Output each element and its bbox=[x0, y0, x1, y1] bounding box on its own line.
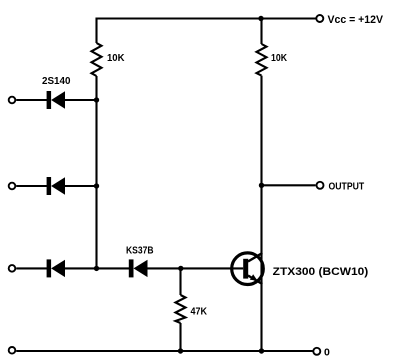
junction node row1/left bus bbox=[94, 97, 99, 102]
svg-text:0: 0 bbox=[324, 346, 330, 358]
svg-text:10K: 10K bbox=[107, 53, 125, 64]
wire 47K resistor top lead bbox=[179, 268, 181, 295]
wire left bus lower segment bbox=[95, 76, 97, 268]
terminal 0V right bbox=[313, 348, 320, 355]
wire top supply rail bbox=[96, 17, 316, 19]
svg-text:KS37B: KS37B bbox=[126, 246, 154, 257]
wire right vertical upper segment bbox=[260, 19, 262, 45]
terminal input 1 bbox=[9, 97, 16, 104]
diode D4 KS37B bbox=[129, 259, 148, 277]
diode D2 (input 2) bbox=[47, 177, 65, 195]
diode D1 2S140 (input 1) bbox=[47, 91, 65, 109]
wire input row 2 bbox=[16, 185, 47, 187]
svg-text:OUTPUT: OUTPUT bbox=[329, 181, 365, 192]
wire bottom 0V rail bbox=[16, 350, 312, 352]
wire input row 3 bbox=[16, 267, 47, 269]
terminal input 2 bbox=[9, 183, 16, 190]
wire diode D4 to transistor base bbox=[148, 267, 244, 269]
svg-text:10K: 10K bbox=[271, 53, 288, 64]
wire left bus upper segment bbox=[95, 18, 97, 44]
junction node 47K / 0V rail bbox=[178, 348, 183, 353]
diode D3 (input 3) bbox=[47, 259, 65, 277]
resistor R2 10K (right) bbox=[257, 44, 267, 76]
terminal 0V left bbox=[9, 347, 16, 354]
terminal Vcc bbox=[316, 15, 323, 22]
svg-text:Vcc = +12V: Vcc = +12V bbox=[328, 14, 384, 26]
junction node row2/left bus bbox=[94, 183, 99, 188]
wire 47K resistor bottom lead bbox=[179, 323, 181, 351]
resistor R1 10K (left) bbox=[92, 43, 102, 76]
junction node top rail / R2 bbox=[258, 16, 263, 21]
wire right vertical lower segment (collector/emitter line) bbox=[260, 76, 262, 351]
resistor R3 47K bbox=[176, 295, 186, 323]
svg-text:47K: 47K bbox=[191, 307, 208, 318]
junction node row3/left bus bbox=[94, 266, 99, 271]
terminal input 3 bbox=[9, 265, 16, 272]
transistor Q1 ZTX300 bbox=[232, 253, 264, 285]
wire input row 1 bbox=[16, 99, 47, 101]
terminal OUTPUT bbox=[317, 182, 324, 189]
junction node emitter / 0V rail bbox=[259, 348, 264, 353]
svg-text:2S140: 2S140 bbox=[42, 76, 71, 87]
junction node base / 47K bbox=[178, 266, 183, 271]
svg-text:ZTX300 (BCW10): ZTX300 (BCW10) bbox=[273, 266, 369, 278]
junction node output / collector line bbox=[259, 183, 264, 188]
wire output bbox=[262, 184, 316, 186]
